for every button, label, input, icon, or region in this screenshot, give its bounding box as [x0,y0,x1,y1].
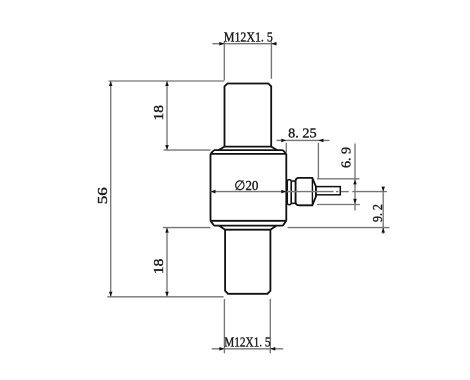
sensor body [211,150,287,230]
6.9 top arrow [353,179,357,184]
svg-text:18: 18 [151,258,166,274]
56 top arrow [109,81,113,86]
svg-text:8. 25: 8. 25 [288,126,317,141]
svg-text:9. 2: 9. 2 [370,204,385,222]
9.2 top arrow [381,187,385,192]
cable stem [316,187,340,195]
6.9 dimension line [354,144,356,211]
9.2 bottom extension line [288,227,390,229]
bottom face extension line [107,296,223,298]
bottom M12X1.5 extension line left [223,299,225,353]
8.25 extension line left [285,143,287,153]
top thread cylinder M12 [219,84,278,151]
56 dimension line [110,81,112,297]
cable gland hex nut [296,178,316,205]
56 bottom arrow [109,292,113,297]
top M12X1.5 extension line left [223,41,225,80]
top 18 extension line [164,149,211,151]
bottom M12X1.5 extension line right [269,299,271,353]
top M12X1.5 left arrow [219,42,224,46]
top M12X1.5 dimension line [212,43,276,45]
top face extension line [109,80,225,82]
top M12X1.5 right arrow [271,42,276,46]
dia20 right arrow [281,190,286,194]
svg-text:M12X1. 5: M12X1. 5 [224,335,270,350]
cable gland washer [287,180,291,205]
8.25 dimension line [277,139,330,141]
6.9 bottom extension tick [317,204,360,206]
hex nut facet line [311,178,313,205]
top 18 bottom arrow [165,145,169,150]
8.25 left arrow [281,139,286,143]
bottom 18 bottom arrow [165,292,169,297]
svg-text:6. 9: 6. 9 [339,146,354,168]
bottom 18 top arrow [165,228,169,233]
8.25 right arrow [318,139,323,143]
centerline [287,191,387,193]
svg-text:M12X1. 5: M12X1. 5 [224,29,273,44]
6.9 top extension tick [317,178,359,180]
9.2 bottom arrow [381,228,385,233]
bottom M12X1.5 left arrow [219,347,224,351]
9.2 dimension line [382,187,384,234]
dia20 left arrow [211,190,216,194]
svg-text:56: 56 [95,187,110,204]
dia20 dimension line [211,191,287,193]
bottom M12X1.5 dimension line [212,348,284,350]
top M12X1.5 extension line right [270,41,272,79]
svg-text:∅20: ∅20 [234,178,258,193]
cable gland spacer ring [291,181,295,203]
bottom thread cylinder M12 [225,230,270,294]
8.25 extension line right [317,143,319,179]
top 18 top arrow [165,81,169,86]
6.9 bottom arrow [353,199,357,204]
bottom M12X1.5 right arrow [270,347,275,351]
bottom 18 left extension line [163,227,211,229]
svg-text:18: 18 [151,105,166,121]
top 18 dimension line [166,81,168,150]
bottom 18 dimension line [166,228,168,297]
